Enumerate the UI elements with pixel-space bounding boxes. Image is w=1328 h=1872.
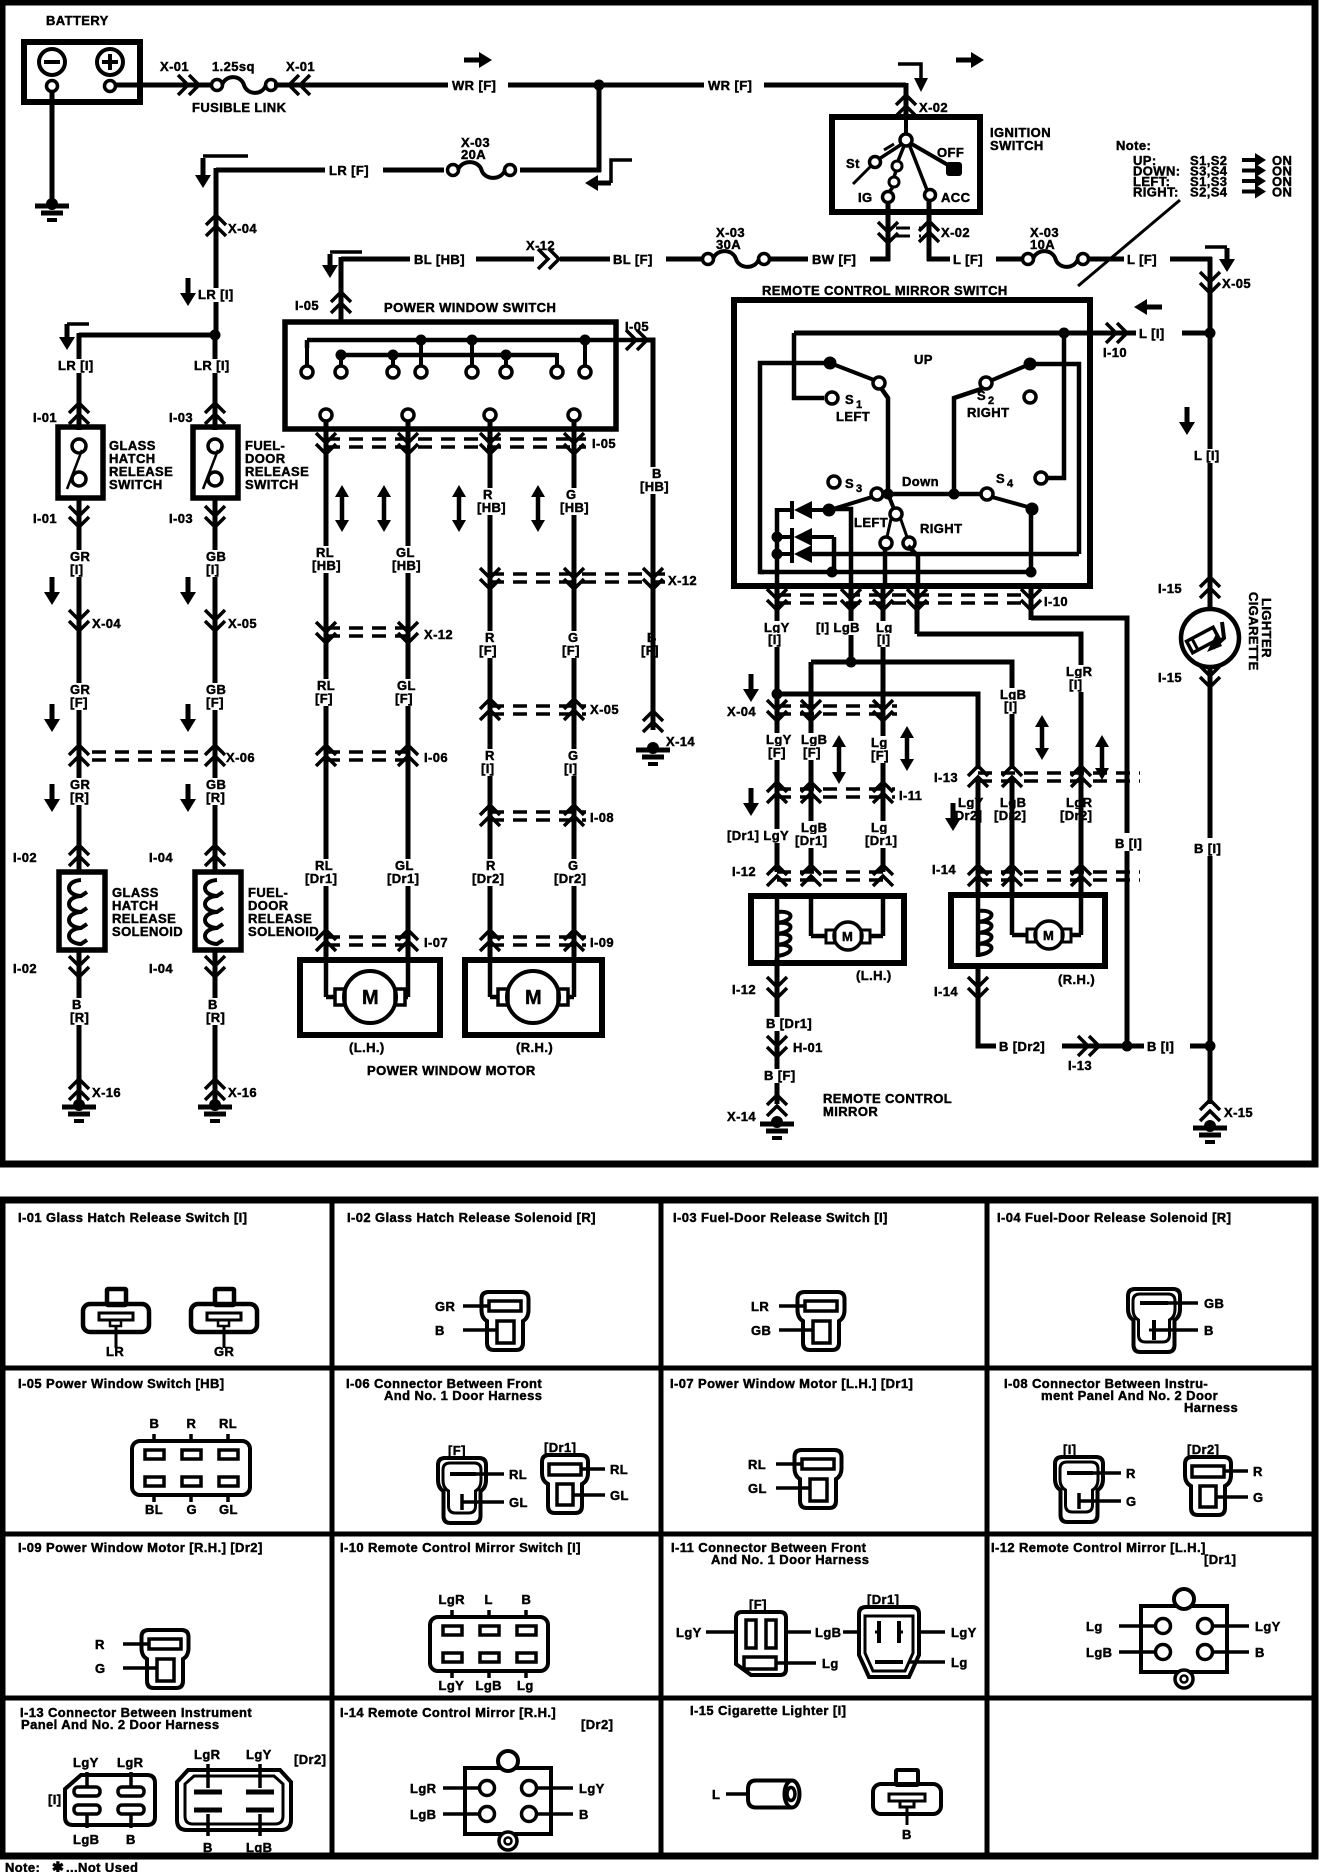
PWS lower bus <box>341 353 557 358</box>
wire LR [F] row <box>216 168 601 173</box>
wire L [F] row right <box>1088 257 1212 262</box>
RCMS S4 moving circle <box>981 488 993 500</box>
bus I-12 dashed <box>777 872 890 880</box>
wire RCMS exit LgR0 <box>915 584 920 634</box>
svg-text:X-01: X-01 <box>160 59 189 74</box>
connector drawing I-10 <box>430 1592 548 1693</box>
connector I-03 upper <box>205 403 225 424</box>
svg-text:LgY: LgY <box>439 1678 465 1693</box>
svg-text:[Dr2]: [Dr2] <box>1060 808 1092 823</box>
connector I-05 G <box>564 433 584 454</box>
RCMS S3 arm <box>823 497 873 517</box>
table title I-09 <box>18 1540 263 1555</box>
svg-text:Lg: Lg <box>951 1655 968 1670</box>
bus I-14 dashed <box>978 872 1140 880</box>
PWS pin circles bottom <box>320 409 580 421</box>
svg-text:[F]: [F] <box>448 1443 466 1458</box>
svg-text:LgR: LgR <box>117 1755 144 1770</box>
table title I-01 <box>18 1210 247 1225</box>
connector I-09 R <box>480 930 500 951</box>
svg-text:G: G <box>1253 1490 1264 1505</box>
connector X-12 G <box>564 568 584 589</box>
svg-text:I-02: I-02 <box>13 961 37 976</box>
connector I-05 RL <box>316 433 336 454</box>
svg-text:3: 3 <box>856 483 863 495</box>
label power window motor <box>367 1063 536 1078</box>
svg-text:X-02: X-02 <box>919 100 948 115</box>
label ignition switch <box>990 125 1051 153</box>
svg-text:X-05: X-05 <box>228 616 257 631</box>
svg-text:[I]: [I] <box>877 632 890 647</box>
connector X-06 left <box>69 745 89 766</box>
label B [R] col1 <box>68 997 89 1025</box>
label I-01 upper <box>33 410 57 425</box>
RCMS diode stack wire <box>772 508 783 586</box>
connector I-05 entry <box>331 292 351 313</box>
label X-14 mirror <box>727 1109 756 1124</box>
connector X-14 mirror <box>767 1095 787 1116</box>
svg-text:RIGHT:: RIGHT: <box>1133 185 1179 200</box>
svg-text:St: St <box>846 156 860 171</box>
fuel door release solenoid SOL2 <box>195 872 241 950</box>
svg-text:[I]: [I] <box>1063 1442 1076 1457</box>
svg-text:SWITCH: SWITCH <box>109 477 163 492</box>
connector X-05 R <box>480 699 500 720</box>
RCMS selector right circle <box>900 517 915 549</box>
connector I-06 GL <box>398 745 418 766</box>
label WR [F] 1 <box>448 75 508 93</box>
svg-text:FUSIBLE LINK: FUSIBLE LINK <box>192 100 287 115</box>
svg-text:M: M <box>842 929 853 944</box>
connector X-12 row <box>538 249 559 269</box>
connector drawing I-12 <box>1086 1589 1281 1688</box>
hook arrow L corner <box>1205 247 1235 272</box>
svg-text:X-14: X-14 <box>727 1109 756 1124</box>
svg-text:LgY: LgY <box>579 1781 605 1796</box>
label I-09 <box>590 935 614 950</box>
wire GL col <box>406 421 411 960</box>
svg-text:X-16: X-16 <box>228 1085 257 1100</box>
svg-text:H-01: H-01 <box>793 1040 823 1055</box>
wire BW [F] row <box>769 257 890 262</box>
table title I-07 <box>670 1376 913 1391</box>
label L [F] 2 <box>1124 249 1170 267</box>
svg-text:SWITCH: SWITCH <box>245 477 299 492</box>
svg-text:LEFT: LEFT <box>854 515 888 530</box>
svg-text:RIGHT: RIGHT <box>967 405 1009 420</box>
label (R.H.) mirror <box>1058 972 1095 987</box>
wire BL [HB] row <box>341 257 534 262</box>
svg-text:B: B <box>522 1592 532 1607</box>
svg-text:Note:: Note: <box>1116 138 1151 153</box>
svg-text:I-15: I-15 <box>1158 670 1182 685</box>
label LEFT lower <box>854 515 888 530</box>
ground battery <box>35 198 69 220</box>
svg-text:LR [I]: LR [I] <box>198 287 234 302</box>
label R [HB] <box>475 487 506 515</box>
svg-text:X-06: X-06 <box>226 750 255 765</box>
svg-text:BL: BL <box>145 1502 163 1517</box>
RCMS down row wire <box>888 492 982 497</box>
updown arrow m2 <box>900 726 914 771</box>
svg-text:B: B <box>435 1323 445 1338</box>
table row divider 2 <box>2 1532 1315 1537</box>
wire LgB F down <box>809 662 814 872</box>
connector drawing I-07 <box>748 1450 842 1508</box>
RCMS S4 arm <box>992 497 1039 516</box>
label R [Dr2] <box>470 858 506 886</box>
hook arrow LR corner left <box>195 156 248 188</box>
battery label <box>46 13 109 28</box>
svg-text:[HB]: [HB] <box>312 558 341 573</box>
RCMS S2 arm <box>990 358 1037 382</box>
svg-text:[HB]: [HB] <box>392 558 421 573</box>
svg-text:[Dr1]: [Dr1] <box>387 871 419 886</box>
svg-text:BATTERY: BATTERY <box>46 13 109 28</box>
label L [I] vertical <box>1192 448 1221 463</box>
cigarette lighter CL <box>1181 609 1239 667</box>
connector I-01 upper <box>69 403 89 424</box>
diode D2 <box>776 528 834 572</box>
label (L.H.) pwm <box>349 1040 385 1055</box>
diode D3 <box>776 545 1079 563</box>
label 1.25sq <box>212 59 255 74</box>
wire WR down to ignition <box>904 83 909 119</box>
connector I-13 LgR <box>1071 766 1091 787</box>
label LgB [Dr1] <box>793 820 827 848</box>
connector drawing I-06 F <box>438 1458 528 1523</box>
svg-text:I-13: I-13 <box>934 770 958 785</box>
svg-text:B [Dr1]: B [Dr1] <box>766 1016 812 1031</box>
ignition contact IG <box>883 187 894 203</box>
battery B1 <box>24 42 140 102</box>
svg-text:B [I]: B [I] <box>1194 841 1221 856</box>
RCMS selector wires down <box>885 546 918 586</box>
label Lg [I] <box>874 620 894 647</box>
svg-text:[F]: [F] <box>768 745 786 760</box>
svg-text:30A: 30A <box>716 237 741 252</box>
label I-12 bus <box>732 864 756 879</box>
label L [I] out <box>1136 323 1182 341</box>
svg-text:I-03 Fuel-Door Release Switch: I-03 Fuel-Door Release Switch [I] <box>673 1210 888 1225</box>
label I-11 F tag <box>749 1597 767 1612</box>
label LgB [I] <box>998 687 1026 714</box>
PWS upper bus <box>307 340 653 348</box>
updown arrow 1 <box>335 485 349 532</box>
svg-text:LgY: LgY <box>246 1747 272 1762</box>
label RIGHT upper <box>967 405 1009 420</box>
power window motor RH M2 <box>465 960 602 1035</box>
label I-10 out <box>1103 345 1127 360</box>
power window motor LH M1 <box>300 960 440 1035</box>
table column divider 1 <box>330 1200 335 1856</box>
label LEFT upper <box>836 409 870 424</box>
wire battery negative to ground <box>50 91 55 203</box>
wire R col <box>488 421 493 960</box>
schematic border frame <box>2 2 1315 1164</box>
label OFF <box>937 145 964 160</box>
svg-text:BL [F]: BL [F] <box>613 252 653 267</box>
label LgY [F] <box>764 732 792 760</box>
label (R.H.) pwm <box>516 1040 553 1055</box>
svg-text:R: R <box>187 1416 197 1431</box>
svg-text:GR: GR <box>435 1299 456 1314</box>
svg-text:X-14: X-14 <box>666 734 695 749</box>
svg-text:LgY: LgY <box>1255 1619 1281 1634</box>
connector I-14 below <box>968 977 988 998</box>
svg-text:OFF: OFF <box>937 145 964 160</box>
label GL [Dr1] <box>385 858 419 886</box>
label X-04 col1 <box>92 616 121 631</box>
direction arrow L down <box>1179 407 1195 435</box>
RCMS selector left circle <box>880 519 892 549</box>
bus I-05 dashed <box>326 439 586 447</box>
svg-text:S: S <box>996 471 1005 486</box>
svg-text:ON: ON <box>1272 185 1292 200</box>
note row RIGHT <box>1133 185 1292 200</box>
svg-text:I-01 Glass Hatch Release Switc: I-01 Glass Hatch Release Switch [I] <box>18 1210 247 1225</box>
wire col1 lower <box>77 950 82 1104</box>
label I-05 right <box>625 319 649 334</box>
label LR [F] <box>325 160 383 178</box>
wire LgR Dr2 down <box>1079 769 1084 895</box>
svg-text:REMOTE CONTROL MIRROR SWITCH: REMOTE CONTROL MIRROR SWITCH <box>762 283 1008 298</box>
bus X-02 dashed <box>896 228 921 236</box>
svg-text:LR: LR <box>751 1299 769 1314</box>
connector drawing I-01 GR <box>191 1289 257 1359</box>
updown arrow 4 <box>531 485 545 532</box>
svg-text:RIGHT: RIGHT <box>920 521 962 536</box>
label X-02 bottom <box>941 225 970 240</box>
table title I-06 <box>346 1376 542 1403</box>
label G [F] <box>560 630 580 658</box>
svg-text:POWER WINDOW MOTOR: POWER WINDOW MOTOR <box>367 1063 536 1078</box>
svg-text:UP: UP <box>914 352 933 367</box>
label GR [F] <box>68 682 91 710</box>
svg-text:I-01: I-01 <box>33 511 57 526</box>
label UP <box>914 352 933 367</box>
connector I-13 LgB <box>1002 766 1022 787</box>
direction arrow Dr2 <box>945 803 961 831</box>
svg-text:Note:: Note: <box>5 1860 40 1872</box>
connector drawing I-02 <box>435 1292 529 1350</box>
label X-04 bus <box>727 704 756 719</box>
svg-text:LR [I]: LR [I] <box>58 358 94 373</box>
RCMS S2 extra circle <box>1024 391 1036 403</box>
glass hatch release switch SW1 <box>58 427 103 498</box>
svg-text:[HB]: [HB] <box>560 500 589 515</box>
table title I-08 <box>1004 1376 1238 1415</box>
svg-text:I-12: I-12 <box>732 864 756 879</box>
RCMS S2 lower wire <box>909 494 954 548</box>
RCMS S4 feed wire <box>1047 333 1064 478</box>
label I-06 <box>424 750 448 765</box>
wire LgY Dr2 down <box>976 777 981 895</box>
connector I-11 LgB <box>801 782 821 803</box>
label WR [F] 2 <box>704 75 764 93</box>
connector I-14 LgR <box>1071 865 1091 886</box>
hook arrow left branch <box>59 324 89 350</box>
connector I-10 LgY <box>767 589 787 610</box>
svg-text:SOLENOID: SOLENOID <box>112 924 183 939</box>
label LgY [Dr2] <box>948 795 984 823</box>
label R [I] <box>479 748 496 776</box>
RCMS S2 wire down <box>954 388 984 492</box>
svg-text:S2,S4: S2,S4 <box>1190 185 1228 200</box>
svg-text:[Dr1] LgY: [Dr1] LgY <box>727 828 789 843</box>
RCMS S3 lone circle <box>828 476 840 488</box>
svg-text:I-03: I-03 <box>169 511 193 526</box>
wire B [I] right vertical <box>1208 666 1213 1104</box>
svg-text:Down: Down <box>902 474 939 489</box>
svg-text:[R]: [R] <box>70 790 89 805</box>
PWS entry junction <box>336 350 347 361</box>
wire B transfer <box>1031 618 1127 1046</box>
label I-15 lower <box>1158 670 1182 685</box>
note row DOWN <box>1133 164 1292 179</box>
bus X-12 RGB dashed <box>490 574 666 582</box>
svg-text:And No. 1 Door Harness: And No. 1 Door Harness <box>384 1388 542 1403</box>
connector H-01 <box>767 1036 787 1057</box>
label LR [I] col2 <box>192 358 230 373</box>
RCMS S4 wire down <box>1029 509 1034 572</box>
svg-text:B: B <box>1255 1645 1265 1660</box>
svg-text:LgY: LgY <box>676 1625 702 1640</box>
ignition contact St <box>853 144 902 184</box>
label ACC <box>941 190 971 205</box>
svg-text:SWITCH: SWITCH <box>990 138 1044 153</box>
connector I-04 upper <box>205 845 225 866</box>
svg-text:LgR: LgR <box>410 1781 437 1796</box>
svg-text:LgB: LgB <box>815 1625 841 1640</box>
wire L vertical <box>1208 257 1213 610</box>
label BW [F] <box>808 249 870 267</box>
table column divider 2 <box>659 1200 664 1856</box>
bus X-04 dashed <box>777 706 897 714</box>
connector X-05 col2 <box>205 610 225 631</box>
label G [Dr2] <box>552 858 588 886</box>
svg-text:[I]: [I] <box>768 632 781 647</box>
table title I-10 <box>340 1540 581 1555</box>
label GL [HB] <box>390 545 421 573</box>
label X-14 B <box>666 734 695 749</box>
connector drawing I-08 Dr2 <box>1185 1457 1264 1515</box>
fusible link FL 1.25sq <box>212 77 277 93</box>
wire col1 upper <box>77 333 82 430</box>
fuel door release switch SW2 <box>193 427 238 498</box>
svg-text:LgY: LgY <box>73 1755 99 1770</box>
label S1 <box>845 392 863 411</box>
label LgR [Dr2] <box>1058 795 1094 823</box>
svg-text:LEFT: LEFT <box>836 409 870 424</box>
svg-text:[Dr1]: [Dr1] <box>795 833 827 848</box>
connector drawing I-11 F <box>676 1612 841 1675</box>
connector I-13 row chevron <box>1078 1036 1099 1056</box>
svg-text:POWER WINDOW SWITCH: POWER WINDOW SWITCH <box>384 300 556 315</box>
label fuel door release solenoid <box>248 885 319 939</box>
svg-text:X-12: X-12 <box>424 627 453 642</box>
svg-text:LgR: LgR <box>194 1747 221 1762</box>
wire Lg F down <box>881 660 886 872</box>
svg-text:S: S <box>845 476 854 491</box>
connector drawing I-04 <box>1128 1289 1224 1352</box>
svg-text:[I]: [I] <box>1069 677 1082 692</box>
connector X-05 G <box>564 699 584 720</box>
svg-text:Panel And No. 2 Door Harness: Panel And No. 2 Door Harness <box>21 1717 220 1732</box>
svg-text:[F]: [F] <box>871 748 889 763</box>
table title I-11 <box>671 1540 869 1567</box>
wire RCMS exit B0 <box>1029 584 1034 620</box>
bus I-11 dashed <box>777 789 895 797</box>
svg-text:[F]: [F] <box>315 691 333 706</box>
svg-text:(R.H.): (R.H.) <box>516 1040 553 1055</box>
label BL [F] <box>610 249 666 267</box>
svg-text:B: B <box>1204 1323 1214 1338</box>
note row UP <box>1133 153 1292 168</box>
svg-text:X-16: X-16 <box>92 1085 121 1100</box>
svg-text:I-15 Cigarette Lighter [I]: I-15 Cigarette Lighter [I] <box>690 1703 846 1718</box>
connector X-04 Lg <box>873 700 893 721</box>
label X-04 top <box>228 221 257 236</box>
label I-08 Dr2 tag <box>1187 1442 1219 1457</box>
svg-text:B: B <box>579 1807 589 1822</box>
connector X-06 right <box>205 745 225 766</box>
label S4 <box>996 471 1014 490</box>
connector X-02 ACC <box>919 221 939 242</box>
direction arrow col2 c <box>180 784 196 812</box>
ignition wire internal top <box>904 117 908 136</box>
wire col2 mid <box>213 640 218 872</box>
label GB [F] <box>204 682 226 710</box>
svg-text:L [F]: L [F] <box>1127 252 1157 267</box>
svg-text:[Dr2]: [Dr2] <box>581 1717 613 1732</box>
label I-08 <box>590 810 614 825</box>
table column divider 3 <box>985 1200 990 1856</box>
svg-text:[I]: [I] <box>48 1792 61 1807</box>
label glass hatch release solenoid <box>112 885 183 939</box>
svg-text:(L.H.): (L.H.) <box>349 1040 385 1055</box>
svg-text:[Dr1]: [Dr1] <box>865 833 897 848</box>
svg-text:[F]: [F] <box>395 691 413 706</box>
label cigarette lighter <box>1246 592 1274 671</box>
svg-text:[Dr2]: [Dr2] <box>554 871 586 886</box>
label BL [HB] <box>410 249 476 267</box>
svg-text:LgB: LgB <box>1086 1645 1112 1660</box>
svg-text:GR: GR <box>214 1344 235 1359</box>
svg-text:I-03: I-03 <box>169 410 193 425</box>
svg-text:1.25sq: 1.25sq <box>212 59 255 74</box>
connector I-12 LgB <box>801 865 821 886</box>
connector I-11 Lg <box>873 782 893 803</box>
PWS pin stubs top <box>307 340 585 367</box>
label remote control mirror switch <box>762 283 1008 298</box>
power window switch box SW4 <box>285 322 616 429</box>
svg-text:L [I]: L [I] <box>1139 326 1165 341</box>
svg-text:B [Dr2]: B [Dr2] <box>999 1039 1045 1054</box>
label glass hatch release switch <box>109 438 173 492</box>
svg-text:I-08: I-08 <box>590 810 614 825</box>
ignition contact OFF <box>910 143 962 176</box>
svg-text:R: R <box>1253 1464 1263 1479</box>
remote control mirror RH M4 <box>951 895 1105 966</box>
label I-13 bus <box>934 770 958 785</box>
RCMS inner right wire <box>1030 364 1079 554</box>
label I-04 lower <box>149 961 173 976</box>
RCMS S4 fixed circle <box>1035 472 1047 484</box>
table row divider 1 <box>2 1366 1315 1371</box>
wire LgB Dr2 down <box>1010 777 1015 895</box>
svg-text:(R.H.): (R.H.) <box>1058 972 1095 987</box>
